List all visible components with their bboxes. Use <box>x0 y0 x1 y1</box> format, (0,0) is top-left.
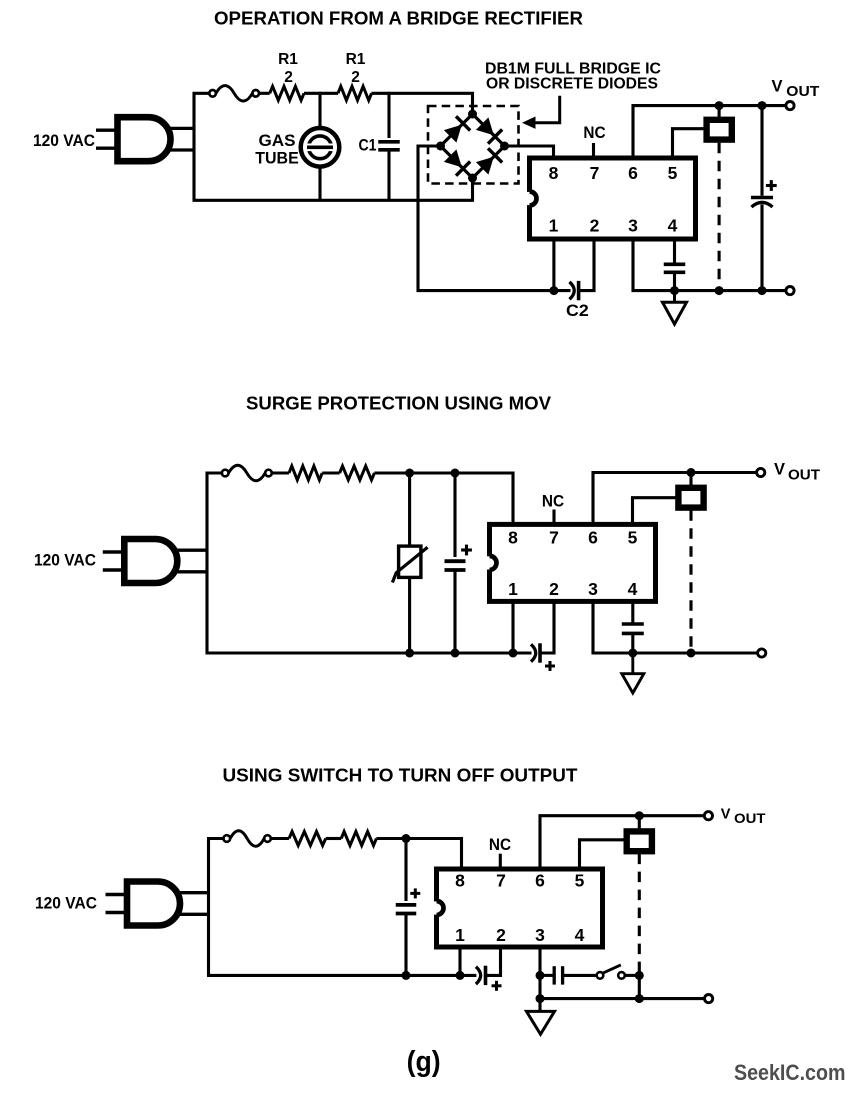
diode D4 (bottom to right) <box>476 148 502 174</box>
node: dashed link bottom (circuit 2) <box>687 649 696 658</box>
resistor R2b (circuit 2) <box>340 466 375 480</box>
svg-text:6: 6 <box>588 528 598 548</box>
terminal: Vout (circuit 1) <box>786 102 794 110</box>
node: Vout cap bottom (circuit 1) <box>758 286 767 295</box>
fuse F3 (circuit 3) <box>224 831 271 847</box>
wire: fuse to R1 (circuit 1) <box>259 92 270 95</box>
svg-text:NC: NC <box>489 835 511 854</box>
node: pin1/C2 junction <box>549 286 558 295</box>
wire: pin 5 to relay box (circuit 2) <box>633 498 677 523</box>
wire: top rail plug-to-fuse (circuit 1) <box>193 92 210 95</box>
node: pin3 rail crossing (circuit 3) <box>536 994 545 1003</box>
AC plug P2 (circuit 2) <box>103 539 207 583</box>
terminal: output return (circuit 3) <box>705 995 713 1003</box>
wire: R1 to bridge top corner (circuit 1) <box>372 93 473 115</box>
electrolytic capacitor Cout (circuit 1) <box>751 198 773 208</box>
wire: C8 to pin 2 (circuit 3) <box>486 948 501 976</box>
wire: C1 bottom lead <box>387 150 390 200</box>
svg-text:2: 2 <box>351 69 360 86</box>
terminal: output return (circuit 2) <box>758 649 766 657</box>
svg-text:4: 4 <box>575 925 585 945</box>
svg-text:5: 5 <box>575 871 585 891</box>
wire: junction to C9 (circuit 3) <box>540 974 554 977</box>
wire: bridge edge left-bottom <box>441 146 473 178</box>
capacitor C8 (polarized, circuit 3) <box>476 966 486 985</box>
switch S1 (circuit 3) <box>597 965 625 979</box>
wire: bridge edge left-top <box>441 114 473 146</box>
node: cap bottom junction (circuit 3) <box>402 971 411 980</box>
wire: MOV top lead <box>408 473 411 545</box>
IC U1 (circuit 1, DIP-8) <box>526 158 696 239</box>
wire: pin 4 top lead (circuit 2) <box>631 602 634 624</box>
svg-text:2: 2 <box>496 925 506 945</box>
IC U2 (circuit 2, DIP-8) <box>486 524 656 601</box>
wire: pin 6 to Vout rail (circuit 1) <box>633 106 787 157</box>
svg-text:R1: R1 <box>278 51 298 68</box>
node: bridge bottom (AC) <box>468 174 477 183</box>
wire: pin 1 down (circuit 3) <box>458 948 461 976</box>
relay/load box K3 (circuit 3) <box>627 831 652 851</box>
svg-text:7: 7 <box>590 163 600 183</box>
svg-text:120 VAC: 120 VAC <box>35 894 97 913</box>
svg-text:SURGE PROTECTION USING MOV: SURGE PROTECTION USING MOV <box>246 393 552 414</box>
svg-text:2: 2 <box>590 215 600 235</box>
svg-text:V: V <box>772 78 783 96</box>
svg-text:OUT: OUT <box>788 468 820 484</box>
svg-text:120 VAC: 120 VAC <box>33 131 95 150</box>
wire: resistor to pin 8 (circuit 2) <box>374 473 513 523</box>
svg-text:C1: C1 <box>359 136 377 154</box>
svg-text:3: 3 <box>628 215 638 235</box>
resistor R2a (circuit 2) <box>289 466 322 480</box>
svg-text:V: V <box>721 806 731 822</box>
node: ground junction (circuit 1) <box>670 286 679 295</box>
svg-text:6: 6 <box>535 871 545 891</box>
wire: relay box top to rail (circuit 2) <box>689 473 692 487</box>
electrolytic capacitor C4 (circuit 2) <box>445 561 466 570</box>
fuse F2 (circuit 2) <box>222 465 272 481</box>
node: pin1 junction (circuit 2) <box>509 649 518 658</box>
wire: gas tube bottom lead <box>318 165 321 200</box>
wire: between resistors (circuit 1) <box>304 92 338 95</box>
node: bridge right (DC+) <box>500 142 509 151</box>
capacitor C1 <box>378 142 400 150</box>
wire: C9 to switch (circuit 3) <box>563 974 597 977</box>
wire: switch to dashed junction (circuit 3) <box>625 974 640 977</box>
wire: pin 5 to relay box (circuit 1) <box>673 129 707 157</box>
wire: bridge bottom node to bottom rail <box>471 177 474 202</box>
arrow: label to bridge <box>535 96 560 123</box>
tick: NC to pin 7 (circuit 2) <box>552 510 555 524</box>
terminal: Vout (circuit 2) <box>757 468 765 476</box>
svg-text:OUT: OUT <box>786 83 819 100</box>
svg-text:4: 4 <box>628 579 638 599</box>
svg-text:(g): (g) <box>407 1046 441 1078</box>
node: relay top junction (circuit 1) <box>715 101 724 110</box>
diode D1 (left to top) <box>444 116 470 142</box>
node: bridge left (DC-) <box>436 142 445 151</box>
svg-text:1: 1 <box>455 925 465 945</box>
tick: NC to pin 7 (circuit 1) <box>592 143 595 156</box>
wire: pin 1 down (circuit 2) <box>511 602 514 653</box>
ground symbol (circuit 3) <box>527 1011 555 1034</box>
wire: top rail plug-to-fuse (circuit 3) <box>207 837 224 840</box>
dashed link: relay to switch row (circuit 3) <box>638 854 641 976</box>
svg-text:8: 8 <box>549 163 559 183</box>
node: MOV bottom junction <box>405 649 414 658</box>
svg-text:2: 2 <box>549 579 559 599</box>
svg-text:1: 1 <box>508 579 518 599</box>
wire: C1 top lead <box>387 92 390 138</box>
dashed link: relay to bottom rail (circuit 2) <box>689 510 692 653</box>
wire: bridge edge top-right <box>473 114 505 146</box>
MOV RV1 (metal oxide varistor) <box>392 546 427 582</box>
resistor R3a (circuit 3) <box>289 832 326 846</box>
node: ground junction (circuit 2) <box>628 649 637 658</box>
svg-text:TUBE: TUBE <box>255 150 299 168</box>
node: relay top junction (circuit 3) <box>635 811 644 820</box>
svg-text:3: 3 <box>588 579 598 599</box>
capacitor C2 (polarized) <box>570 281 579 300</box>
wire: pin 6 to Vout rail (circuit 2) <box>593 473 757 524</box>
wire: C2 junction to C2 <box>554 289 571 292</box>
node: pin1 junction (circuit 3) <box>456 971 465 980</box>
wire: input left vertical (circuit 2) <box>205 473 208 653</box>
node: cap bottom junction (circuit 2) <box>451 649 460 658</box>
svg-text:1: 1 <box>549 215 559 235</box>
svg-text:SeekIC.com: SeekIC.com <box>734 1060 846 1085</box>
svg-text:R1: R1 <box>346 51 366 68</box>
node: cap top junction (circuit 2) <box>451 469 460 478</box>
node: bridge top (AC) <box>468 110 477 119</box>
svg-text:6: 6 <box>628 163 638 183</box>
AC plug P3 (circuit 3) <box>106 882 209 926</box>
ground symbol (circuit 1) <box>663 291 687 325</box>
wire: between resistors (circuit 3) <box>326 837 342 840</box>
label + (C4, circuit 2) <box>461 545 472 556</box>
wire: Vout cap top lead (circuit 1) <box>760 106 763 196</box>
wire: pin 3 to output rail (circuit 2) <box>593 602 758 653</box>
resistor R1 second half (circuit 1) <box>338 86 372 100</box>
svg-text:NC: NC <box>542 492 564 511</box>
wire: fuse to resistor (circuit 2) <box>272 471 289 474</box>
wire: pin 3 to output bottom rail (circuit 1) <box>633 239 787 291</box>
node: MOV top junction <box>405 469 414 478</box>
node: pin3/switch junction (circuit 3) <box>536 971 545 980</box>
terminal: Vout (circuit 3) <box>704 812 712 820</box>
dashed box around bridge rectifier <box>428 106 519 184</box>
resistor R1 first half (circuit 1) <box>270 86 304 100</box>
node: Vout cap top junction (circuit 1) <box>758 101 767 110</box>
svg-text:7: 7 <box>549 528 559 548</box>
wire: between resistors (circuit 2) <box>322 471 339 474</box>
wire: Vout cap bottom lead (circuit 1) <box>760 205 763 291</box>
node: dashed/switch junction (circuit 3) <box>635 971 644 980</box>
wire: pin 3 down to ground (circuit 3) <box>538 948 541 1012</box>
wire: input bottom rail (circuit 2) <box>206 651 532 654</box>
svg-text:GAS: GAS <box>259 132 296 150</box>
ground symbol (circuit 2) <box>622 653 644 693</box>
diode D2 (top to right) <box>476 117 502 143</box>
AC plug P1 (circuit 1) <box>96 117 194 161</box>
dashed link: relay to bottom rail (circuit 1) <box>718 143 721 291</box>
capacitor C9 (switch row, circuit 3) <box>554 966 562 984</box>
wire: bridge edge bottom-right <box>473 146 505 178</box>
capacitor C3 (pin 4, circuit 1) <box>664 264 686 272</box>
wire: input left vertical (circuit 1) <box>192 93 195 200</box>
node: cap top junction (circuit 3) <box>402 834 411 843</box>
wire: pin 4 cap to rail (circuit 2) <box>631 633 634 653</box>
label + (Cout, circuit 1) <box>766 180 777 191</box>
wire: C2 to pin 2 <box>579 239 594 291</box>
capacitor C6 (pin 4, circuit 2) <box>622 624 644 633</box>
resistor R3b (circuit 3) <box>341 832 376 846</box>
svg-text:USING SWITCH TO TURN OFF OUTPU: USING SWITCH TO TURN OFF OUTPUT <box>223 764 579 785</box>
node: relay top junction (circuit 2) <box>687 468 696 477</box>
wire: C5 to pin 2 (circuit 2) <box>540 602 554 653</box>
tick: NC to pin 7 (circuit 3) <box>499 854 502 868</box>
capacitor C5 (polarized, circuit 2) <box>531 643 540 662</box>
svg-text:120 VAC: 120 VAC <box>34 551 96 570</box>
svg-text:OUT: OUT <box>734 810 766 826</box>
wire: relay box top to rail (circuit 3) <box>638 816 641 830</box>
svg-text:5: 5 <box>668 163 678 183</box>
relay/load box K2 (circuit 2) <box>678 488 703 508</box>
wire: pin 5 to relay box (circuit 3) <box>580 840 626 868</box>
node: dashed link bottom (circuit 3) <box>635 994 644 1003</box>
svg-text:2: 2 <box>284 69 293 86</box>
wire: cap top lead (circuit 2) <box>453 473 456 557</box>
wire: cap top lead (circuit 3) <box>404 839 407 902</box>
svg-text:8: 8 <box>508 528 518 548</box>
wire: gas tube top lead <box>318 92 321 130</box>
terminal: output return (circuit 1) <box>786 287 794 295</box>
gas tube V1 (surge arrester) <box>301 128 340 167</box>
wire: resistor to pin 8 (circuit 3) <box>376 839 461 869</box>
diode D3 (left to bottom) <box>444 149 470 175</box>
wire: relay box top to rail (circuit 1) <box>718 106 721 118</box>
svg-text:C2: C2 <box>566 302 589 320</box>
svg-text:OPERATION FROM A BRIDGE RECTIF: OPERATION FROM A BRIDGE RECTIFIER <box>214 7 583 28</box>
wire: MOV bottom lead <box>408 579 411 653</box>
wire: top rail plug-to-fuse (circuit 2) <box>206 471 223 474</box>
electrolytic capacitor C7 (circuit 3) <box>396 905 417 914</box>
wire: output bottom rail (circuit 3) <box>540 997 705 1000</box>
svg-text:V: V <box>774 461 785 479</box>
IC U3 (circuit 3, DIP-8) <box>433 869 603 947</box>
wire: input bottom rail (circuit 1) <box>193 199 473 202</box>
svg-text:8: 8 <box>455 871 465 891</box>
svg-text:OR DISCRETE DIODES: OR DISCRETE DIODES <box>486 76 658 93</box>
wire: bridge left node to C2 row <box>418 146 554 291</box>
svg-text:3: 3 <box>535 925 545 945</box>
node: dashed link bottom (circuit 1) <box>715 286 724 295</box>
wire: pin 6 to Vout rail (circuit 3) <box>540 816 705 868</box>
wire: bridge right node to IC pin 8 <box>504 146 554 158</box>
wire: input bottom rail (circuit 3) <box>207 974 476 977</box>
wire: dashed junction down to bottom rail (circuit 3) <box>638 975 641 998</box>
svg-text:NC: NC <box>583 123 605 142</box>
label + (C5, circuit 2) <box>545 661 555 671</box>
wire: pin 4 top lead (circuit 1) <box>673 239 676 264</box>
svg-text:4: 4 <box>668 215 678 235</box>
wire: cap bottom lead (circuit 3) <box>404 914 407 976</box>
fuse F1 (circuit 1) <box>209 86 259 102</box>
svg-text:5: 5 <box>628 528 638 548</box>
wire: input left vertical (circuit 3) <box>207 839 210 976</box>
label + (C8, circuit 3) <box>492 981 502 991</box>
svg-text:7: 7 <box>496 871 506 891</box>
wire: pin 4 cap to rail (circuit 1) <box>673 272 676 290</box>
label + (C7, circuit 3) <box>410 888 420 898</box>
relay/load box K1 (circuit 1) <box>707 120 732 140</box>
wire: cap bottom lead (circuit 2) <box>453 570 456 653</box>
wire: pin 1 down to C2 junction <box>552 239 555 291</box>
wire: fuse to resistor (circuit 3) <box>271 837 289 840</box>
